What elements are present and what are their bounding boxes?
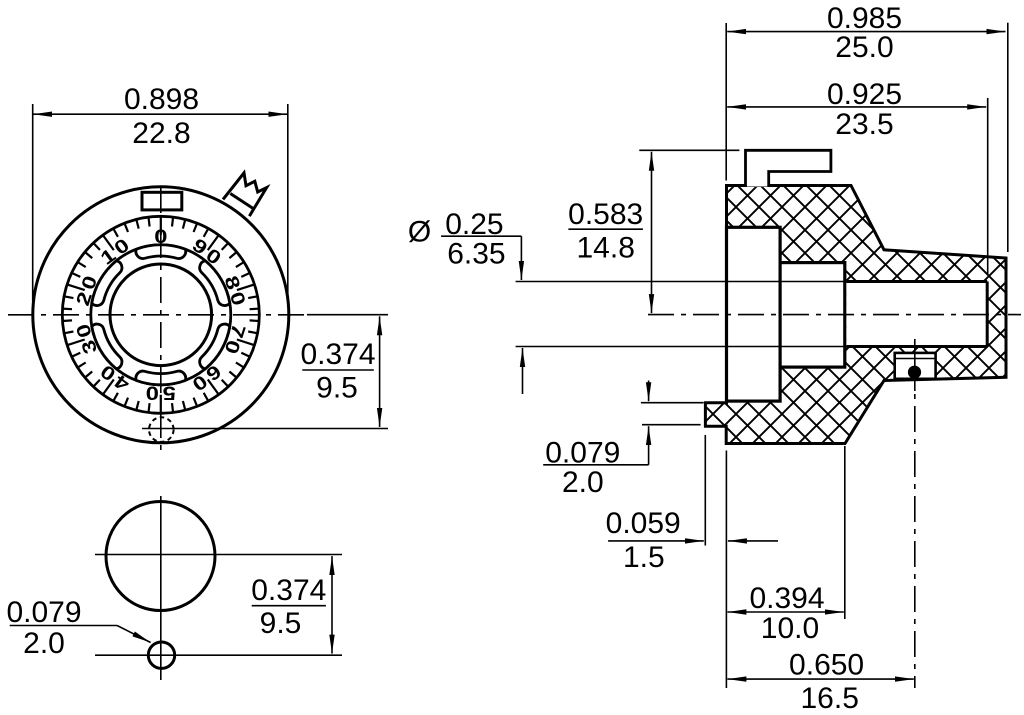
- svg-text:0.079: 0.079: [6, 596, 81, 629]
- svg-text:22.8: 22.8: [132, 117, 190, 150]
- svg-text:0.898: 0.898: [124, 83, 199, 116]
- svg-text:0.650: 0.650: [789, 648, 864, 681]
- svg-text:0.374: 0.374: [300, 338, 375, 371]
- svg-text:9.5: 9.5: [260, 607, 302, 640]
- svg-text:0.374: 0.374: [251, 574, 326, 607]
- dimension 0.374/9.5 (bottom): [331, 556, 333, 654]
- knob body hatched profile: [705, 186, 1006, 444]
- vertical centerline bottom view: [160, 496, 162, 680]
- dimension 0.059/1.5: [704, 435, 706, 546]
- detent white rect: [895, 353, 936, 379]
- core white rect: [727, 227, 781, 401]
- svg-text:0.925: 0.925: [827, 78, 902, 111]
- svg-text:Ø: Ø: [408, 216, 431, 249]
- dimension 0.394/10.0: [844, 446, 846, 619]
- dimension 0.925/23.5: [987, 98, 989, 275]
- bore bottom edge thick: [846, 345, 987, 348]
- dashed detent circle: [149, 417, 174, 442]
- bore top edge thick: [846, 280, 987, 283]
- svg-text:0.583: 0.583: [568, 198, 643, 231]
- graduation ticks: [63, 216, 260, 413]
- window rectangle: [142, 192, 182, 210]
- horizontal line through large hole: [95, 554, 342, 556]
- bushing white rect: [780, 263, 845, 368]
- section horizontal centerline: [648, 314, 1021, 316]
- dial hub circle: [110, 264, 212, 366]
- svg-text:0.394: 0.394: [749, 582, 824, 615]
- dimension 0.985/25.0: [725, 23, 727, 181]
- pointer tab base line: [230, 194, 253, 209]
- bore extension thin lines: [516, 281, 847, 283]
- anti-rotation pin hole: [148, 642, 174, 668]
- pointer tab front: [223, 173, 267, 216]
- dial numbers: [73, 227, 249, 402]
- svg-text:25.0: 25.0: [835, 31, 893, 64]
- dial lens ring circle: [91, 245, 231, 385]
- detent vertical centerline: [914, 339, 916, 391]
- dial tick ring circle: [62, 216, 259, 413]
- svg-text:14.8: 14.8: [577, 232, 635, 265]
- dimension 0.374/9.5 (front): [307, 314, 388, 316]
- svg-text:0.059: 0.059: [606, 507, 681, 540]
- bore end thick: [986, 282, 989, 347]
- svg-text:9.5: 9.5: [316, 372, 358, 405]
- dial vertical centerline: [160, 187, 162, 453]
- pointer tab side view: [746, 150, 831, 186]
- dial horizontal centerline: [8, 314, 311, 316]
- detent spring line: [895, 358, 936, 360]
- dial outer circle: [33, 187, 289, 443]
- svg-text:1.5: 1.5: [623, 541, 665, 574]
- horizontal line through pin hole: [95, 654, 342, 656]
- panel hole large circle: [106, 502, 215, 611]
- grip lens cutouts: [92, 245, 230, 385]
- dimension 0.650/16.5: [727, 678, 913, 680]
- svg-text:16.5: 16.5: [801, 682, 859, 715]
- svg-text:23.5: 23.5: [835, 108, 893, 141]
- svg-text:0.079: 0.079: [545, 437, 620, 470]
- detent ball: [908, 366, 921, 379]
- dimension 0.583/14.8: [639, 149, 739, 151]
- shaft bore white: [846, 282, 987, 347]
- dimension 0.079/2.0 (section): [641, 402, 704, 404]
- svg-text:10.0: 10.0: [761, 612, 819, 645]
- dimension 0.898/22.8: [32, 104, 34, 301]
- svg-text:6.35: 6.35: [447, 237, 505, 270]
- svg-text:2.0: 2.0: [23, 627, 65, 660]
- svg-text:2.0: 2.0: [562, 466, 604, 499]
